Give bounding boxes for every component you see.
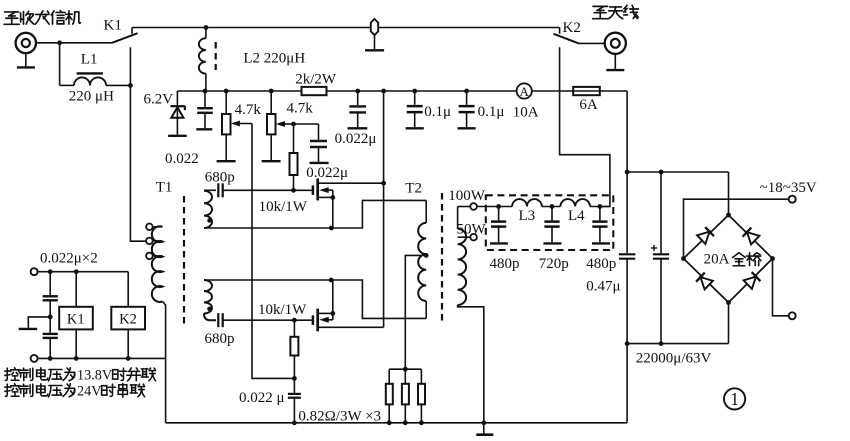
potentiometer RP2 4.7k	[270, 91, 272, 114]
svg-text:10k/1W: 10k/1W	[259, 199, 308, 215]
wire T2 sec bottom to ground bus	[458, 305, 484, 423]
wire K2 coil bottom	[127, 329, 129, 358]
svg-text:480p: 480p	[490, 256, 520, 272]
label 控制电压为24V时串联	[5, 384, 19, 397]
phase dot T1 sec-upper	[207, 218, 211, 222]
label 至收发信机 (to transceiver)	[4, 12, 19, 24]
svg-text:22000μ/63V: 22000μ/63V	[636, 351, 712, 367]
ground (C3)	[310, 162, 329, 164]
ground (zener)	[168, 135, 187, 137]
diode D2 (NE)	[747, 232, 759, 244]
svg-text:0.022: 0.022	[165, 151, 199, 167]
capacitor C6 720p	[551, 207, 553, 221]
wire V1 source down	[332, 197, 334, 228]
node rail-RP2	[269, 89, 274, 94]
bridge edge NE	[729, 215, 773, 259]
terminal T1-a	[146, 224, 153, 231]
diode D3 (SW)	[701, 277, 713, 289]
wire RP2 wiper to C3	[294, 123, 319, 125]
svg-text:0.022μ: 0.022μ	[306, 165, 348, 181]
mosfet V1 gate bar	[312, 185, 315, 195]
ground (C2)	[348, 127, 368, 129]
terminal T1-c	[146, 253, 153, 260]
mosfet V1 body arrow	[319, 187, 329, 193]
svg-text:K2: K2	[563, 20, 581, 36]
svg-text:T1: T1	[156, 180, 173, 196]
wire J1 to node A	[36, 42, 60, 44]
wiper arrow RP1	[234, 123, 253, 125]
wire K2 lower contact to LPF output	[560, 47, 610, 206]
ground (RP2)	[262, 160, 281, 162]
wire 50W tap	[458, 236, 471, 238]
svg-text:20A: 20A	[704, 252, 730, 268]
bridge edge SE	[729, 259, 773, 303]
terminal 100W	[470, 203, 477, 210]
diode D1 (NW)	[697, 232, 709, 244]
wire RP1 wiper feedback to lower bias node	[252, 124, 294, 379]
svg-text:680p: 680p	[205, 331, 235, 347]
svg-text:6A: 6A	[579, 97, 598, 113]
wire riser to ground bus	[626, 344, 628, 423]
svg-text:720p: 720p	[539, 256, 569, 272]
svg-text:4.7k: 4.7k	[235, 102, 262, 118]
node V2 gate	[292, 318, 297, 323]
switch K1 blade	[112, 33, 138, 43]
svg-text:K1: K1	[104, 18, 122, 34]
wire T2 sec top to 100W terminal	[458, 206, 471, 208]
svg-text:L4: L4	[568, 208, 585, 224]
node V1 source tie	[330, 195, 335, 200]
core of T1 (dashed)	[183, 196, 185, 324]
wire node A down to L1	[59, 43, 61, 86]
terminal control +	[31, 268, 38, 275]
wire T1 sec-upper top lead	[204, 189, 216, 191]
potentiometer RP1 4.7k	[225, 91, 227, 114]
ground (C8)	[406, 127, 424, 129]
wire spark gap to ground	[374, 35, 376, 49]
transformer T1 secondary upper winding	[204, 191, 212, 228]
capacitor C9 0.1μ	[466, 91, 468, 105]
ground bar (C6)	[543, 242, 561, 244]
svg-text:L1: L1	[81, 52, 98, 68]
node bus-T2sec	[481, 420, 486, 425]
switch K2 upper contact	[559, 28, 561, 34]
node riser-172	[625, 170, 630, 175]
capacitor C14 0.022μ	[49, 272, 51, 295]
wire control top	[38, 271, 129, 273]
node RP2 wiper	[291, 122, 296, 127]
wire DC distribution y=172	[627, 171, 728, 173]
wire y=172 corner down to bridge +	[728, 172, 730, 215]
svg-text:24V: 24V	[77, 384, 102, 400]
transformer T1 primary winding	[152, 226, 163, 302]
wire K2 to J2	[579, 42, 605, 44]
label 至天线 (to antenna)	[593, 6, 608, 18]
capacitor C12 0.47μ	[619, 253, 635, 255]
wire C12 to bottom node	[626, 259, 628, 344]
mosfet V1 channel bar	[316, 179, 319, 201]
ammeter PA 10A	[517, 83, 532, 98]
diode D4 (SE)	[744, 277, 756, 289]
node rail-C9	[464, 89, 469, 94]
wire RP2 wiper to R2	[293, 124, 295, 153]
wire T1-b stub	[153, 240, 163, 242]
svg-text:0.022 μ: 0.022 μ	[239, 390, 285, 406]
ground (C1)	[196, 128, 212, 130]
node rail-C8	[412, 89, 417, 94]
wire T1-a stub	[153, 226, 163, 228]
svg-text:6.2V: 6.2V	[144, 92, 174, 108]
node rail-RP1	[224, 89, 229, 94]
node R5-bus	[403, 420, 408, 425]
wiper arrow RP2	[279, 123, 294, 125]
wire bridge - riser	[728, 303, 730, 344]
wire 22000u upper lead	[660, 172, 662, 253]
node bridge -	[726, 300, 731, 305]
wire source node to T2 top	[331, 200, 426, 228]
capacitor C3 0.022μ	[318, 124, 320, 140]
bridge edge SW	[684, 259, 729, 303]
capacitor C8 0.1μ	[414, 91, 416, 105]
coax connector J2 (antenna)	[605, 33, 626, 54]
node LPF mid	[550, 204, 555, 209]
svg-text:0.1μ: 0.1μ	[424, 104, 451, 120]
wire R2 to gate node	[293, 175, 295, 190]
filter box (dashed)	[486, 195, 614, 250]
wire T1-c stub	[153, 255, 163, 257]
phase dot T1 sec-lower	[207, 307, 211, 311]
svg-text:10A: 10A	[513, 105, 539, 121]
resistor R1 2k/2W	[302, 87, 327, 95]
wire L3-L4	[542, 206, 561, 208]
resistor R3 10k/1W	[290, 337, 298, 356]
wire L4 out	[590, 206, 610, 208]
svg-text:~18~35V: ~18~35V	[760, 180, 817, 196]
label 控制电压为13.8V时并联	[5, 368, 19, 381]
wire ground bus	[166, 422, 627, 424]
node LPF in	[496, 204, 501, 209]
core of T2 (dashed)	[441, 193, 443, 323]
ground (C9)	[458, 127, 476, 129]
wire 22000u lower lead	[660, 259, 662, 344]
node ctrl-K1 top	[74, 269, 79, 274]
capacitor C13 22000μ/63V (+)	[653, 253, 669, 255]
mosfet V2 drain tap	[319, 326, 384, 328]
mosfet V1 source tap	[319, 196, 333, 198]
node T2 center tap	[424, 253, 429, 258]
relay coil K1	[75, 272, 77, 307]
node bridge AC-right	[770, 256, 775, 261]
wire C11 to gate V2	[223, 319, 295, 321]
node bridge +	[726, 213, 731, 218]
mosfet V2 source tap	[319, 312, 333, 314]
wire bridge AC-right to terminal	[773, 259, 789, 316]
wire T1 sec-upper bottom lead to V1 source	[204, 227, 331, 229]
switch K2 blade	[554, 34, 579, 44]
capacitor C1 0.022	[204, 91, 206, 107]
terminal T1-b	[146, 238, 153, 245]
inductor L2 220uH	[205, 28, 207, 39]
svg-text:480p: 480p	[586, 256, 616, 272]
inductor L3	[512, 199, 542, 206]
mosfet V2 channel bar	[316, 309, 319, 332]
wire top rail (K1 to spark gap)	[132, 27, 371, 29]
wire DC negative y=343.6	[627, 343, 728, 345]
node ctrl-cap top	[48, 269, 53, 274]
terminal 50W	[470, 234, 477, 241]
node rail-L2/C1	[203, 89, 208, 94]
capacitor C4 0.022μ	[293, 378, 295, 393]
resistor R6 0.82Ω	[420, 369, 422, 384]
wire V2 source up	[332, 280, 334, 313]
ground (J2)	[614, 54, 616, 69]
node C4-bus	[292, 420, 297, 425]
wire V2 source node to T2 bottom	[331, 280, 426, 318]
svg-text:0.022μ×2: 0.022μ×2	[40, 251, 98, 267]
node C12 bottom	[625, 341, 630, 346]
node L2 top	[204, 25, 209, 30]
wire K1 coil bottom	[75, 329, 77, 358]
capacitor C11 680p (lower)	[217, 313, 219, 327]
svg-text:A: A	[520, 84, 530, 99]
chassis ground (ctrl)	[28, 317, 50, 328]
svg-text:K2: K2	[119, 311, 137, 327]
svg-text:4.7k: 4.7k	[287, 101, 314, 117]
ground (spark gap)	[365, 49, 384, 51]
relay coil K2	[127, 272, 129, 307]
bridge edge NW	[684, 215, 729, 259]
wire ammeter to fuse	[532, 90, 573, 92]
svg-text:10k/1W: 10k/1W	[258, 302, 307, 318]
zener diode VS 6.2V	[176, 91, 178, 135]
capacitor C2 0.022μ	[357, 91, 359, 105]
capacitor C7 480p	[599, 207, 601, 221]
ground (main)	[483, 423, 485, 434]
node V2 source junction	[329, 278, 334, 283]
wire R3 to bias node	[293, 356, 295, 379]
wire gate lead V2	[294, 319, 311, 321]
capacitor C5 480p	[498, 207, 500, 221]
node 22000u top	[659, 170, 664, 175]
node B (L1 right)	[128, 83, 133, 88]
node 22000u bottom	[659, 341, 664, 346]
node LPF out	[598, 204, 603, 209]
resistor R2 10k/1W	[290, 153, 298, 175]
node ctrl caps mid	[48, 315, 53, 320]
wire bridge AC-left to terminal	[684, 199, 789, 258]
transformer T1 secondary lower winding	[204, 280, 212, 314]
wire T1 primary bottom to ground bus	[163, 302, 166, 423]
svg-text:1: 1	[730, 389, 739, 409]
svg-text:L2 220μH: L2 220μH	[243, 51, 305, 67]
node V2 source tie	[330, 311, 335, 316]
svg-text:K1: K1	[67, 311, 85, 327]
wire rail middle section	[327, 90, 517, 92]
node V1 drain	[381, 181, 386, 186]
fuse FU 6A	[573, 87, 600, 95]
coax connector J1 (to transceiver)	[16, 33, 36, 53]
node lower bias	[292, 376, 297, 381]
svg-text:220 μH: 220 μH	[69, 89, 114, 105]
core of L2 (dashed)	[215, 42, 217, 70]
wire rail to drains (B+ feed)	[383, 91, 385, 327]
wire rail left section	[177, 90, 301, 92]
mosfet V2 gate bar	[312, 315, 315, 325]
wire top rail (spark gap to K2)	[378, 27, 559, 29]
node rail-drain-feed	[381, 89, 386, 94]
node bridge AC-left	[681, 256, 686, 261]
node ctrl-K2 bottom	[126, 356, 131, 361]
inductor L4	[560, 199, 590, 206]
svg-text:2k/2W: 2k/2W	[295, 72, 337, 88]
ground (J1)	[25, 53, 27, 66]
terminal control -	[31, 355, 38, 362]
node rail-C2	[355, 89, 360, 94]
wire right riser upper (fuse to C12)	[626, 91, 628, 253]
switch K1 upper contact	[131, 28, 133, 34]
node bank top	[403, 367, 408, 372]
wire T2 center tap to 0.82 bank	[405, 255, 426, 369]
terminal AC-	[789, 312, 796, 319]
mosfet V1 drain tap	[319, 182, 384, 184]
svg-text:T2: T2	[405, 181, 422, 197]
wire fuse to right riser	[600, 90, 627, 92]
wire node A to K1	[60, 42, 112, 44]
resistor R4 0.82Ω	[388, 369, 390, 384]
spark gap FV (surge arrester)	[371, 19, 378, 35]
node ctrl-cap bottom	[48, 356, 53, 361]
svg-text:680p: 680p	[205, 170, 235, 186]
wire 0.82 bank top bus	[389, 368, 421, 370]
figure number ①	[724, 388, 745, 409]
node ctrl-K1 bottom	[74, 356, 79, 361]
svg-text:L3: L3	[519, 208, 536, 224]
node V1 gate	[291, 188, 296, 193]
node R4-bus	[387, 420, 392, 425]
ground (RP1)	[217, 160, 236, 162]
ground bar (C7)	[592, 242, 610, 244]
transformer T2 secondary winding	[457, 207, 459, 229]
wire T1 sec-lower top lead to V2 source	[204, 279, 331, 281]
svg-text:13.8V: 13.8V	[77, 368, 113, 384]
node A (input junction)	[57, 40, 62, 45]
wire 100W terminal into filter	[477, 206, 512, 208]
resistor R5 0.82Ω	[404, 369, 406, 384]
wire gate lead V1	[294, 189, 312, 191]
transformer T2 primary winding	[425, 200, 427, 223]
wire V2 gate to R3	[293, 320, 295, 337]
wire control bottom	[38, 357, 166, 359]
mosfet V2 body arrow	[319, 317, 329, 323]
wire K1 lower contact down through node B to T1 tap	[130, 47, 146, 241]
ground bar (C5)	[490, 242, 508, 244]
capacitor C15 0.022μ	[49, 317, 51, 333]
inductor L1	[60, 84, 74, 86]
svg-text:100W: 100W	[448, 188, 486, 204]
wire C10 to gate V1	[223, 189, 294, 191]
svg-text:50W: 50W	[457, 222, 487, 238]
terminal AC+ (~18-35V)	[789, 196, 796, 203]
svg-text:0.1μ: 0.1μ	[478, 104, 505, 120]
svg-text:0.022μ: 0.022μ	[335, 131, 377, 147]
node V1 source junction	[329, 226, 334, 231]
capacitor C10 680p (upper)	[217, 183, 219, 197]
svg-text:0.47μ: 0.47μ	[586, 279, 620, 295]
node R6-bus	[419, 420, 424, 425]
